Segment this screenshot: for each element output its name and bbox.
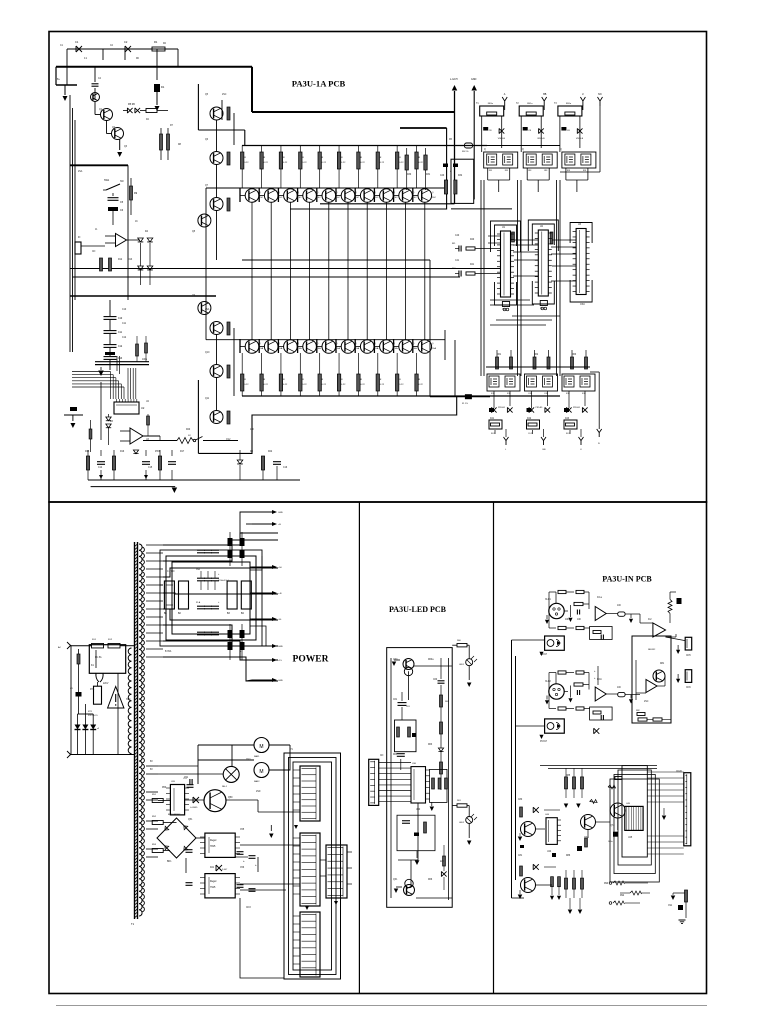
svg-text:LED1: LED1 <box>459 664 465 666</box>
transformer winding second column <box>142 547 145 912</box>
svg-text:VR05-B: VR05-B <box>537 138 545 140</box>
svg-text:OSC: OSC <box>580 304 585 306</box>
resistor Rc <box>574 602 583 605</box>
wire <box>251 202 253 339</box>
svg-text:GND: GND <box>278 646 283 648</box>
wire <box>240 346 245 348</box>
component value labels <box>57 43 691 909</box>
ground arrow <box>72 415 74 421</box>
resistor <box>227 107 230 120</box>
wire <box>405 202 407 339</box>
wire <box>568 391 570 408</box>
op-amp U43b <box>646 680 657 693</box>
wire <box>278 346 283 348</box>
transistor Q72 <box>521 878 536 893</box>
resistor trio lower <box>565 878 568 889</box>
transistor Q9 <box>198 302 211 315</box>
switch SW1 <box>106 184 120 190</box>
arrow <box>550 896 554 900</box>
capacitor bank 2 <box>197 577 205 579</box>
arrow L-GCH up <box>454 91 456 204</box>
svg-text:PC817: PC817 <box>540 654 548 656</box>
ground cluster bottom right <box>671 896 676 901</box>
wire fan <box>379 762 411 764</box>
wire branch <box>56 84 77 86</box>
svg-text:7915: 7915 <box>210 886 216 889</box>
svg-text:R90: R90 <box>604 883 609 885</box>
wire <box>259 346 264 348</box>
ground arrow <box>172 488 178 494</box>
bottom resistor row 2 <box>630 891 642 895</box>
capacitor C16 <box>273 461 281 463</box>
resistor R62 <box>440 695 443 707</box>
svg-text:2SD: 2SD <box>256 791 261 793</box>
svg-text:4700uF/1.4: 4700uF/1.4 <box>218 580 229 582</box>
bottom row right box <box>638 718 647 721</box>
resistor R105 row A <box>337 152 340 169</box>
svg-text:FB1a: FB1a <box>527 103 533 105</box>
svg-text:R1: R1 <box>154 40 158 44</box>
capacitor bank reg <box>186 849 193 851</box>
wire interconnect verticals <box>480 180 482 376</box>
zener diodes 3 <box>566 407 571 412</box>
arrow <box>676 679 680 683</box>
wire <box>452 644 457 646</box>
svg-text:R66: R66 <box>428 879 433 881</box>
svg-text:R41: R41 <box>470 264 475 266</box>
wire <box>526 168 528 180</box>
resistor pair below U44 <box>551 877 554 887</box>
svg-text:CN: CN <box>380 755 384 757</box>
capacitor C2 <box>125 46 131 52</box>
capacitor C51 plus <box>187 784 194 786</box>
bottom-left component row <box>86 456 89 470</box>
antenna output 1 <box>502 97 507 106</box>
svg-text:R86: R86 <box>566 855 571 857</box>
resistor above Q74 <box>608 785 616 789</box>
arrow below <box>416 851 418 858</box>
diode D61 <box>441 871 446 876</box>
transformer tap wires lower <box>146 765 158 767</box>
wire left verticals IN panel <box>511 640 513 898</box>
switch S2 <box>193 439 195 441</box>
svg-text:1K: 1K <box>135 221 138 223</box>
svg-text:R92: R92 <box>620 895 625 897</box>
svg-text:PA3U-LED PCB: PA3U-LED PCB <box>389 605 447 614</box>
output arrows <box>252 511 272 513</box>
capacitor below Q74 <box>613 832 618 837</box>
resistor Rb <box>576 590 584 593</box>
left rail of amplifier block <box>197 84 199 130</box>
transistor Q107 row A <box>380 189 394 203</box>
svg-text:PR5-B1: PR5-B1 <box>536 407 544 409</box>
transistor Q12 <box>210 411 223 424</box>
capacitor C30 <box>483 127 488 131</box>
svg-text:35A: 35A <box>196 568 201 571</box>
resistor mid <box>585 838 588 847</box>
zener diodes 1 <box>491 407 496 412</box>
transistor Q207 row B <box>380 340 394 354</box>
svg-text:C41: C41 <box>455 260 460 262</box>
wire left drop <box>70 646 72 755</box>
arrow <box>568 618 572 622</box>
op-amp stage <box>595 687 606 701</box>
transistor Q73 <box>581 815 596 830</box>
transformer tap wires upper <box>146 544 163 546</box>
resistor R31 <box>424 155 427 170</box>
diode D30 <box>499 128 504 133</box>
svg-text:Q61: Q61 <box>393 879 398 881</box>
svg-text:U2: U2 <box>141 406 145 410</box>
wire base bus row B <box>206 339 445 341</box>
svg-text:U44: U44 <box>547 851 552 853</box>
svg-text:NTC: NTC <box>126 699 131 701</box>
resistor R101 row A <box>260 152 263 169</box>
mains input terminal lower <box>67 751 71 758</box>
wire lower bus links <box>486 366 590 368</box>
svg-text:C40: C40 <box>455 235 460 237</box>
svg-text:D1: D1 <box>161 85 165 89</box>
wire relay drop <box>117 673 119 754</box>
antenna lower 3 <box>579 437 584 445</box>
svg-text:GND: GND <box>278 680 283 682</box>
wire <box>493 391 495 408</box>
resistor R103 row A <box>299 152 302 169</box>
diode D1 <box>154 84 160 92</box>
resistor R14 <box>89 429 92 439</box>
inline component FB1 <box>465 143 473 148</box>
transistor Q206 row B <box>360 340 374 354</box>
transistor Q50 <box>204 790 226 812</box>
svg-text:BB: BB <box>543 93 547 96</box>
svg-text:+-B: +-B <box>278 593 282 595</box>
capacitor column ch2 <box>597 666 599 685</box>
capacitor CX1 black <box>76 692 82 697</box>
wire <box>328 202 330 339</box>
bridge module B1 <box>164 581 174 609</box>
fuse F3 <box>108 643 120 648</box>
svg-text:U: U <box>582 93 584 96</box>
svg-text:R20: R20 <box>186 429 191 431</box>
rectifier outline rects <box>166 556 256 640</box>
svg-text:NE-1: NE-1 <box>222 786 228 788</box>
svg-text:FU 8A: FU 8A <box>95 656 102 659</box>
transistor Q202 row B <box>284 340 298 354</box>
wire led mid <box>401 692 403 701</box>
resistor R80 <box>668 599 672 613</box>
svg-text:8V: 8V <box>150 761 153 763</box>
svg-text:22K: 22K <box>440 861 445 863</box>
svg-text:Q: Q <box>432 192 434 194</box>
wire connector stubs <box>293 769 300 771</box>
black dot junction <box>564 408 569 412</box>
svg-text:M: M <box>259 769 263 775</box>
lower mosfet pair 3 <box>562 374 595 391</box>
capacitor C5 <box>108 197 119 199</box>
box below U30 <box>397 815 435 851</box>
diode pair D6 D7 <box>138 266 144 270</box>
svg-text:GND: GND <box>278 512 283 514</box>
svg-text:C51: C51 <box>184 777 189 779</box>
svg-text:C56: C56 <box>240 867 245 869</box>
ground arrow <box>396 886 402 888</box>
svg-text:NN: NN <box>598 93 602 96</box>
svg-text:Q: Q <box>560 149 562 151</box>
svg-text:L-05085: L-05085 <box>190 807 198 809</box>
capacitor C41 <box>458 271 460 277</box>
wire <box>317 346 322 348</box>
resistor R64 <box>440 762 443 774</box>
svg-text:F1 1%: F1 1% <box>462 403 468 405</box>
svg-text:CN20: CN20 <box>676 771 683 773</box>
svg-text:R65: R65 <box>393 754 398 756</box>
wire base bus row A <box>206 187 445 189</box>
antenna NN <box>598 97 603 106</box>
svg-text:CN6: CN6 <box>686 687 691 689</box>
resistor R9 <box>130 186 133 200</box>
capacitor stack C10-C12 <box>104 316 117 318</box>
wire side conn <box>320 859 326 861</box>
transistor Q201 row B <box>264 340 278 354</box>
wire <box>487 168 489 180</box>
page shadow line <box>56 1005 707 1007</box>
resistor R30 <box>405 155 408 170</box>
capacitor C31 <box>523 127 528 131</box>
wire long mid horizontals <box>70 268 500 270</box>
lower mosfet pair 1 <box>487 374 520 391</box>
antenna lower 2 <box>541 437 546 445</box>
bridge module B4 <box>241 581 251 609</box>
left cluster A diode <box>533 807 539 813</box>
capacitor C21 black <box>453 164 458 168</box>
wire <box>100 382 102 440</box>
svg-text:Regul: Regul <box>210 880 217 883</box>
svg-text:Q50: Q50 <box>228 797 233 799</box>
transformer core hatch <box>135 544 138 918</box>
XLR connector <box>549 603 564 618</box>
arrow after FB <box>630 695 632 699</box>
ground arrow <box>394 659 400 661</box>
arrow GND up <box>473 91 475 199</box>
mosfet pair block 2 <box>523 152 557 168</box>
capacitor C50 <box>189 779 191 785</box>
wire <box>112 193 114 196</box>
svg-text:2SA: 2SA <box>78 170 83 173</box>
motor M2 <box>254 763 269 778</box>
svg-text:R31: R31 <box>426 174 431 176</box>
svg-text:+: + <box>255 863 257 867</box>
resistor R206 row B <box>357 374 360 391</box>
bridge module B3 <box>227 581 237 609</box>
svg-text:RY1: RY1 <box>90 689 95 691</box>
diode D60 <box>438 748 443 752</box>
opto isolator U42 <box>545 719 565 733</box>
coil box lower 1 <box>489 420 502 429</box>
capacitor C62 <box>397 753 405 755</box>
mains input terminal upper <box>67 642 71 649</box>
box mid components <box>395 720 417 752</box>
svg-text:R13: R13 <box>128 259 133 261</box>
svg-text:Q: Q <box>432 343 434 345</box>
wire <box>366 202 368 339</box>
wire multi-bus left <box>69 95 71 352</box>
resistor R22 <box>261 456 264 470</box>
svg-text:FAN2: FAN2 <box>254 780 260 783</box>
transistor Q70 <box>653 670 665 682</box>
crystal X1 <box>502 302 509 307</box>
resistor R108 row A <box>395 152 398 169</box>
transistor Q109 row A <box>418 189 432 203</box>
svg-text:U45: U45 <box>628 837 633 839</box>
svg-text:7815: 7815 <box>210 845 216 848</box>
capacitor Ca <box>576 690 578 695</box>
resistor R61 <box>457 804 467 807</box>
wire <box>347 202 349 339</box>
diode D8 <box>133 450 138 454</box>
feedback box <box>590 627 613 640</box>
relay K1 <box>89 645 125 674</box>
transistor Q203 row B <box>303 340 317 354</box>
resistor <box>227 322 230 335</box>
transistor Q3 <box>112 128 124 140</box>
svg-text:10K: 10K <box>565 619 570 621</box>
arrow <box>468 666 470 680</box>
crystal X2 <box>540 301 547 306</box>
wire bus <box>451 208 512 210</box>
capacitor C20 black <box>443 164 448 168</box>
wire <box>394 346 399 348</box>
warning triangle <box>108 687 124 709</box>
op-amp U1 <box>116 234 127 247</box>
wire bottom <box>88 479 240 481</box>
resistor <box>227 411 230 424</box>
wire <box>452 805 457 807</box>
panel divider between LED and IN panels <box>493 502 495 994</box>
lamp LA1 <box>223 766 239 782</box>
capacitor C32 <box>561 127 566 131</box>
svg-text:C12: C12 <box>118 346 123 348</box>
wire right amp <box>639 614 641 623</box>
resistor R209 row B <box>415 374 418 391</box>
arrow after FB <box>630 614 632 618</box>
svg-text:Q51: Q51 <box>188 819 193 821</box>
svg-text:CN1: CN1 <box>246 759 251 761</box>
tap resistor 1 <box>152 799 163 803</box>
fuse F2 <box>92 643 104 648</box>
box around input comps <box>451 159 474 203</box>
svg-text:Q73: Q73 <box>584 837 589 839</box>
resistor R201 row B <box>260 374 263 391</box>
svg-text:D42: D42 <box>527 418 532 420</box>
ground arrows comp row <box>99 475 103 479</box>
resistor Re <box>576 707 584 710</box>
resistor R100 row A <box>241 152 244 169</box>
wire to connector area <box>240 889 286 891</box>
wire <box>355 346 360 348</box>
resistor R93 <box>685 890 688 902</box>
wire <box>289 202 291 339</box>
transistor Q1 <box>91 93 100 102</box>
svg-text:FAN1: FAN1 <box>254 755 260 758</box>
arrow emitter <box>119 140 121 151</box>
resistor R63 <box>440 722 443 734</box>
lower block 1 resistors <box>496 357 499 369</box>
panel divider between POWER and LED panels <box>358 502 360 994</box>
svg-text:R17: R17 <box>180 451 185 453</box>
resistor RT1 <box>94 686 102 704</box>
svg-text:220V: 220V <box>103 683 109 685</box>
svg-text:C81: C81 <box>518 855 523 857</box>
coil box lower 2 <box>527 420 540 429</box>
wire led panel <box>408 671 410 700</box>
svg-text:XLR1: XLR1 <box>545 599 551 601</box>
arrow <box>568 698 572 702</box>
resistor trio upper <box>565 777 568 789</box>
black dot junction <box>489 408 494 412</box>
wire output feeds <box>240 512 252 533</box>
nested loops around U45 <box>622 766 647 857</box>
resistor Re <box>576 626 584 629</box>
svg-text:2SC: 2SC <box>432 197 437 199</box>
mosfet pair block 3 <box>562 152 596 168</box>
wire bus to blocks <box>487 145 560 147</box>
transistor Q209 row B <box>418 340 432 354</box>
svg-text:CN: CN <box>92 251 96 253</box>
capacitor C1 <box>76 46 82 52</box>
left cluster A resistor <box>520 807 523 817</box>
ground arrow <box>64 85 66 95</box>
arrow down conn <box>294 825 298 829</box>
svg-text:FB 1%: FB 1% <box>462 151 469 153</box>
transistor Q101 row A <box>264 189 278 203</box>
svg-text:C 4700: C 4700 <box>167 571 175 573</box>
svg-text:R81: R81 <box>660 663 665 665</box>
svg-text:Q: Q <box>522 149 524 151</box>
connector CN20 <box>684 773 691 846</box>
resistor above Q73 <box>590 800 598 804</box>
transformer primary winding left <box>128 648 131 754</box>
transistor Q103 row A <box>303 189 317 203</box>
svg-text:R32: R32 <box>458 175 463 177</box>
capacitor C60 <box>438 680 445 682</box>
left cluster B resistor <box>520 866 523 876</box>
wire channel <box>549 672 556 674</box>
svg-text:FB: FB <box>449 139 452 141</box>
wire collector join <box>242 259 430 261</box>
tap resistor 2 <box>152 821 163 825</box>
lower mosfet pair 2 <box>525 374 558 391</box>
nested loop outer <box>284 753 341 979</box>
svg-text:Z-007: Z-007 <box>222 869 228 871</box>
box around right amp <box>632 636 671 723</box>
mosfet pair block 1 <box>484 152 518 168</box>
resistor R33 <box>454 180 457 194</box>
fuse F1 black <box>465 394 472 399</box>
XLR connector <box>549 684 564 699</box>
svg-text:FB1a: FB1a <box>488 103 494 105</box>
transistor Q104 row A <box>322 189 336 203</box>
svg-text:D43: D43 <box>565 418 570 420</box>
transistor Q10 <box>210 322 223 335</box>
wire <box>413 346 418 348</box>
IC U10 <box>501 231 511 297</box>
capacitor black <box>677 598 682 604</box>
svg-text:M: M <box>259 744 263 750</box>
svg-text:10K: 10K <box>250 429 255 431</box>
tap resistor 3 <box>152 849 163 853</box>
regulator IC U20 <box>170 785 184 815</box>
transistor Q208 row B <box>399 340 413 354</box>
